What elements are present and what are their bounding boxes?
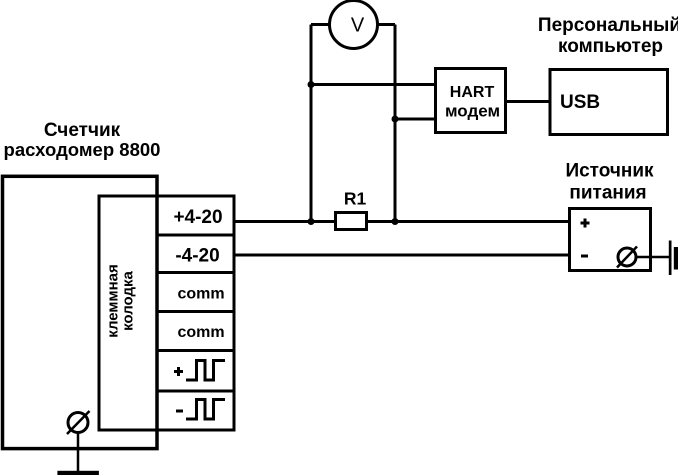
svg-text:расходомер 8800: расходомер 8800	[4, 139, 161, 160]
wire power supply earth terminal to earth symbol	[636, 256, 669, 259]
svg-text:Счетчик: Счетчик	[44, 120, 121, 141]
wire HART modem to USB	[507, 100, 549, 103]
ground bar (flow meter earth)	[57, 471, 99, 475]
svg-text:Источник: Источник	[565, 161, 654, 182]
resistor R1	[336, 189, 367, 230]
wire top loop (+4-20 to power supply +)	[234, 220, 568, 223]
svg-text:HART: HART	[450, 84, 495, 101]
HART modem box U1	[436, 69, 506, 133]
personal computer label	[538, 15, 678, 57]
terminal block box (клеммная колодка)	[98, 195, 236, 432]
svg-text:+4-20: +4-20	[173, 207, 222, 228]
junction dot at left vertical / + loop	[308, 218, 315, 225]
power supply label (Источник питания)	[565, 161, 654, 204]
power supply earth terminal circle with slash	[617, 247, 637, 268]
svg-text:питания: питания	[569, 183, 646, 204]
svg-text:V: V	[351, 15, 365, 37]
svg-text:comm: comm	[177, 324, 224, 341]
svg-text:R1: R1	[344, 189, 367, 209]
ground wire (flow meter to earth bar)	[77, 432, 80, 472]
power supply box	[570, 209, 651, 271]
wire HART modem lower input	[395, 118, 434, 121]
wire bottom loop (-4-20 to power supply -)	[234, 254, 568, 257]
wire HART modem upper input	[311, 83, 434, 86]
wire left vertical (voltmeter left lead down to + loop)	[310, 25, 313, 222]
earth terminal circle with slash (flow meter)	[67, 411, 90, 434]
wire right vertical (voltmeter right lead down to + loop)	[394, 25, 397, 222]
earth symbol short thick bar	[674, 247, 678, 270]
svg-text:компьютер: компьютер	[558, 36, 663, 57]
terminal cell + pulse output symbol	[174, 361, 225, 381]
svg-text:USB: USB	[560, 92, 600, 113]
svg-text:comm: comm	[177, 286, 224, 303]
voltmeter V1 circle	[311, 1, 395, 49]
svg-text:Персональный: Персональный	[538, 15, 678, 36]
personal computer USB box	[550, 70, 668, 135]
junction dot at right vertical / + loop	[392, 218, 399, 225]
terminal cells grid	[157, 195, 234, 432]
svg-text:модем: модем	[445, 102, 500, 121]
svg-text:колодка: колодка	[120, 270, 137, 330]
terminal cell - pulse output symbol	[176, 400, 225, 420]
earth symbol long bar	[669, 241, 672, 276]
junction dot at left vertical / HART upper wire	[308, 81, 315, 88]
svg-text:-4-20: -4-20	[175, 246, 219, 267]
power supply - terminal mark	[581, 255, 588, 258]
junction dot at right vertical / HART lower wire	[392, 116, 399, 123]
flow meter outer box (Счетчик расходомер 8800)	[3, 120, 161, 449]
power supply + terminal mark	[581, 219, 590, 228]
